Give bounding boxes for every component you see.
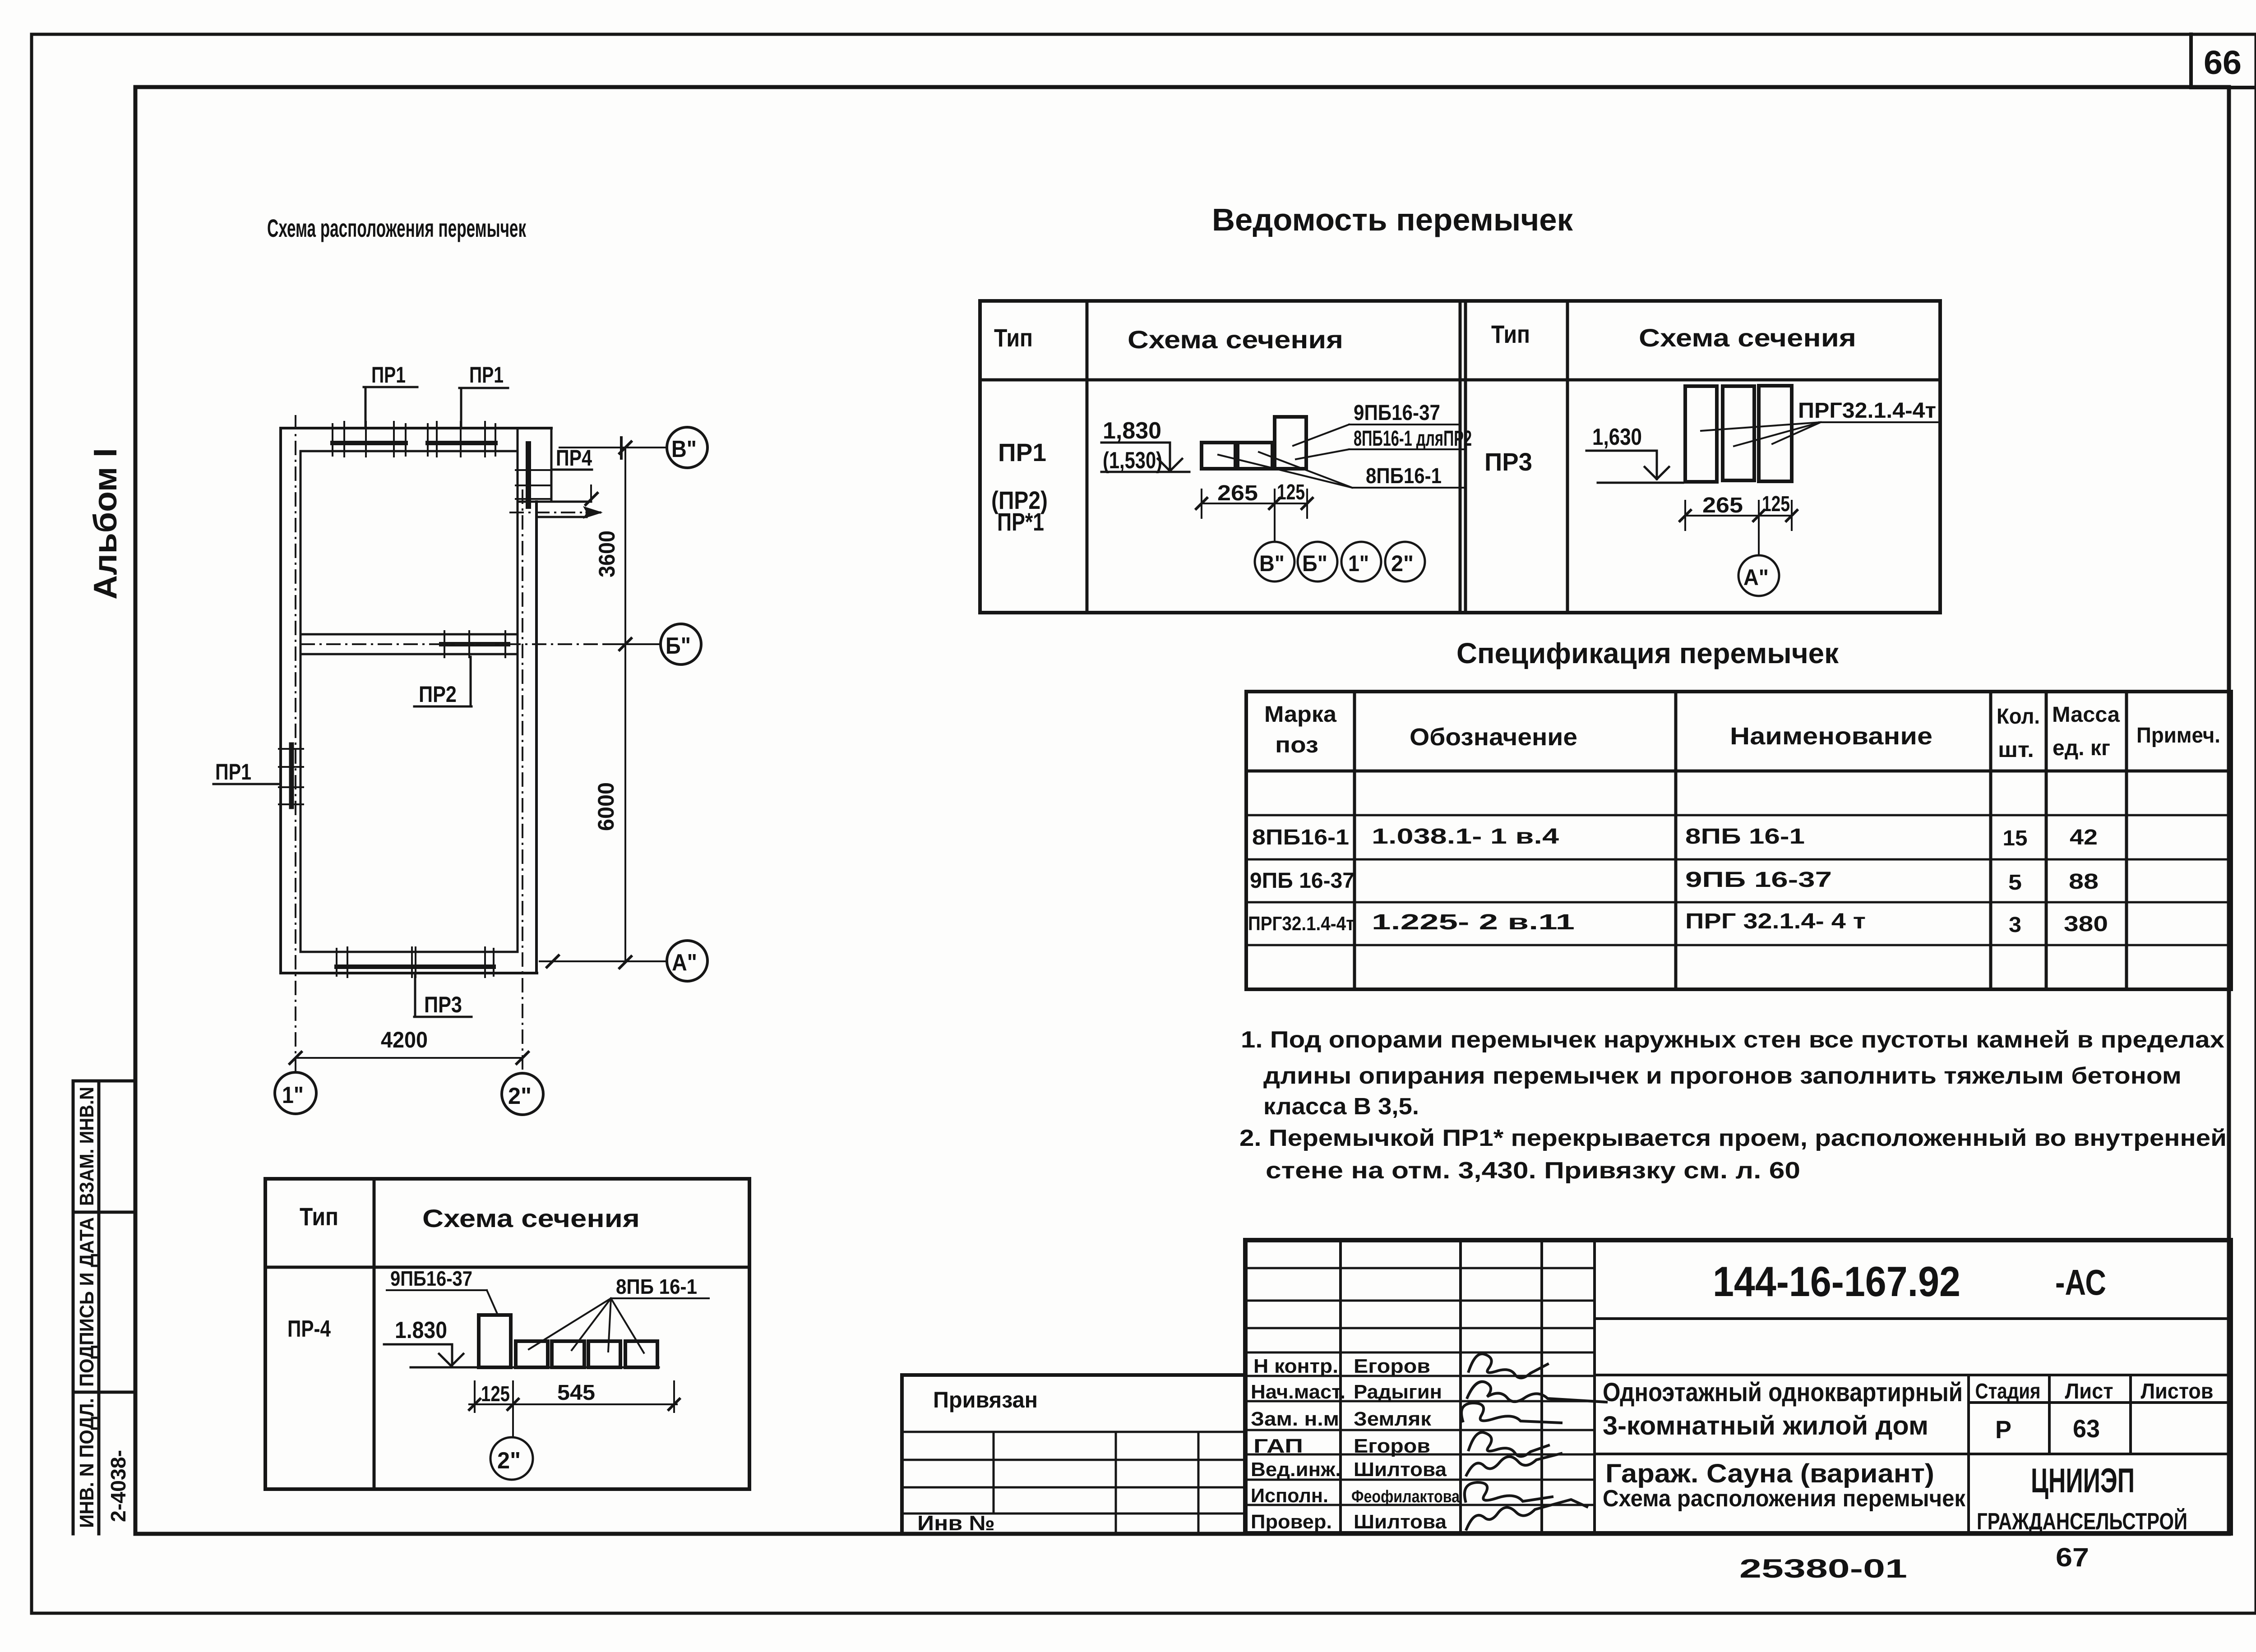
porch edge line [536, 516, 587, 518]
title block verticals [1341, 1240, 1595, 1533]
svg-text:ПР3: ПР3 [424, 992, 462, 1017]
signature squiggle ГАП [1469, 1432, 1549, 1456]
svg-text:ПРГ32.1.4-4т: ПРГ32.1.4-4т [1798, 399, 1936, 423]
svg-text:8ПБ 16-1: 8ПБ 16-1 [616, 1275, 697, 1298]
svg-text:ЦНИИЭП: ЦНИИЭП [2031, 1462, 2135, 1500]
svg-text:2. Перемычкой ПР1* перекрыва: 2. Перемычкой ПР1* перекрывается проем, … [1239, 1125, 2227, 1151]
svg-text:2": 2" [508, 1083, 532, 1109]
svg-text:1.225- 2 в.11: 1.225- 2 в.11 [1372, 910, 1575, 934]
svg-text:ПР4: ПР4 [556, 445, 592, 471]
svg-text:125: 125 [1277, 480, 1305, 504]
signature squiggle Провер. [1466, 1500, 1587, 1529]
svg-text:ГРАЖДАНСЕЛЬСТРОЙ: ГРАЖДАНСЕЛЬСТРОЙ [1977, 1508, 2187, 1535]
axis circle 2" [502, 1073, 543, 1115]
axis circle 1" [275, 1072, 316, 1114]
svg-text:Шилтова: Шилтова [1354, 1458, 1447, 1481]
svg-text:ПР1: ПР1 [998, 438, 1046, 466]
svg-text:(1,530): (1,530) [1103, 448, 1162, 474]
dimension 265 125 right [1685, 501, 1792, 530]
svg-text:ед. кг: ед. кг [2053, 736, 2110, 760]
svg-text:Схема расположения перемычек: Схема расположения перемычек [267, 214, 527, 242]
svg-text:5: 5 [2008, 871, 2022, 895]
svg-text:88: 88 [2069, 870, 2099, 894]
pr4 table frame [265, 1179, 749, 1489]
svg-text:Р: Р [1995, 1415, 2011, 1444]
axis circle А" [667, 941, 707, 981]
svg-text:Феофилактова: Феофилактова [1351, 1487, 1460, 1506]
section circle А" [1738, 555, 1779, 596]
svg-text:8ПБ 16-1: 8ПБ 16-1 [1685, 825, 1805, 849]
svg-text:Наименование: Наименование [1730, 723, 1932, 750]
signature squiggle Нач.маст. [1467, 1382, 1606, 1402]
svg-text:9ПБ 16-37: 9ПБ 16-37 [1250, 869, 1355, 893]
svg-text:ПР1: ПР1 [469, 362, 504, 388]
svg-text:1.038.1- 1 в.4: 1.038.1- 1 в.4 [1372, 825, 1559, 849]
title block left horizontals [1245, 1268, 1595, 1505]
svg-text:Схема сечения: Схема сечения [1128, 325, 1343, 354]
svg-text:Тип: Тип [300, 1202, 338, 1231]
svg-text:265: 265 [1702, 494, 1743, 517]
svg-text:Б": Б" [1302, 551, 1327, 576]
vedomost table frame [980, 301, 1940, 613]
pr4 base line [411, 1366, 659, 1369]
right wall inner line [517, 428, 519, 952]
lintel ПР1 group 1 ticks [333, 422, 406, 457]
vertical dimension line [624, 448, 626, 962]
svg-text:380: 380 [2064, 912, 2108, 936]
lintel ПР1 group 2 bar [428, 441, 495, 445]
pr4 section squares [516, 1341, 548, 1367]
svg-text:1,630: 1,630 [1592, 424, 1642, 450]
svg-text:15: 15 [2003, 826, 2028, 850]
lintel ПР4 bar [526, 444, 531, 506]
svg-text:3-комнатный жилой дом: 3-комнатный жилой дом [1603, 1411, 1928, 1440]
svg-text:поз: поз [1275, 732, 1318, 757]
lintel ПР2 ticks [444, 631, 505, 657]
entry axis dash-dot with arrow [590, 485, 592, 501]
svg-text:Спецификация перемычек: Спецификация перемычек [1456, 637, 1839, 669]
svg-text:42: 42 [2070, 826, 2098, 849]
svg-text:Схема сечения: Схема сечения [1639, 323, 1856, 352]
svg-text:Земляк: Земляк [1354, 1408, 1432, 1430]
svg-text:Гараж. Сауна (вариант): Гараж. Сауна (вариант) [1605, 1459, 1934, 1488]
axis Б" line [300, 643, 605, 645]
right wall notch outer [518, 428, 591, 502]
svg-text:Одноэтажный одноквартирный: Одноэтажный одноквартирный [1603, 1378, 1963, 1407]
svg-text:ПР2: ПР2 [419, 682, 457, 707]
svg-text:-АС: -АС [2055, 1262, 2106, 1302]
axis circle В" [667, 427, 707, 468]
svg-text:Шилтова: Шилтова [1354, 1511, 1447, 1533]
lintel section squares ПР1 [1202, 443, 1235, 469]
svg-text:125: 125 [481, 1382, 510, 1406]
svg-text:ПР1: ПР1 [215, 759, 251, 784]
svg-text:Ведомость перемычек: Ведомость перемычек [1212, 202, 1573, 237]
svg-text:Примеч.: Примеч. [2136, 724, 2220, 748]
leader to section circle А" [1758, 516, 1760, 555]
right wall outer lower line [535, 502, 538, 973]
lintel ПР2 bar [441, 642, 508, 646]
lintel ПР1 left bar [289, 745, 294, 807]
svg-text:545: 545 [557, 1381, 595, 1405]
svg-text:Зам. н.м: Зам. н.м [1251, 1408, 1339, 1430]
svg-text:2": 2" [497, 1448, 521, 1474]
svg-text:Масса: Масса [2052, 703, 2120, 727]
svg-text:стене на отм. 3,430. Привяз: стене на отм. 3,430. Привязку см. л. 60 [1266, 1158, 1800, 1184]
lintel ПР1 group 1 bar [333, 441, 406, 445]
left wall inner line [300, 451, 302, 952]
horizontal dimension 4200 [296, 1057, 522, 1059]
title block right horizontals [1595, 1319, 2231, 1454]
svg-text:ПРГ32.1.4-4т: ПРГ32.1.4-4т [1248, 913, 1355, 935]
axis circle Б" [661, 624, 701, 664]
svg-text:4200: 4200 [381, 1027, 428, 1052]
svg-text:1": 1" [282, 1082, 304, 1108]
svg-text:8ПБ16-1 дляПР2: 8ПБ16-1 дляПР2 [1354, 427, 1472, 451]
pr4 section circle 2" [490, 1437, 533, 1480]
top wall inner line [300, 450, 518, 452]
bottom wall inner line [300, 951, 516, 953]
svg-text:Схема расположения перемычек: Схема расположения перемычек [1603, 1486, 1966, 1512]
svg-text:9ПБ16-37: 9ПБ16-37 [1354, 401, 1440, 425]
svg-text:Нач.маст.: Нач.маст. [1251, 1381, 1345, 1403]
svg-text:9ПБ 16-37: 9ПБ 16-37 [1685, 868, 1832, 892]
svg-text:66: 66 [2204, 44, 2242, 81]
svg-text:9ПБ16-37: 9ПБ16-37 [390, 1267, 472, 1290]
svg-text:ПР1: ПР1 [371, 362, 406, 388]
axis А" line [540, 960, 667, 962]
svg-text:Привязан: Привязан [933, 1387, 1038, 1412]
svg-text:6000: 6000 [593, 782, 619, 831]
axis 2" dash-dot [522, 489, 523, 1073]
top wall outer line [281, 427, 551, 429]
svg-text:шт.: шт. [1998, 738, 2034, 762]
svg-text:265: 265 [1217, 481, 1258, 505]
dimension 265 125 left [1202, 489, 1307, 518]
elevation arrow [1158, 443, 1182, 471]
svg-text:В": В" [1259, 551, 1285, 576]
svg-text:Тип: Тип [1491, 320, 1530, 348]
lintel ПР1 group 2 ticks [428, 422, 495, 457]
section circles В" Б" 1" 2" [1255, 542, 1294, 581]
svg-text:Лист: Лист [2065, 1380, 2113, 1403]
privyazan frame [902, 1375, 1245, 1534]
svg-text:1.830: 1.830 [395, 1317, 447, 1343]
left margin stamp boxes [73, 1081, 135, 1534]
lintel ПР1 left ticks [279, 749, 303, 804]
spec table frame [1246, 692, 2231, 989]
svg-text:ПР-4: ПР-4 [287, 1316, 331, 1342]
svg-text:Н контр.: Н контр. [1253, 1355, 1338, 1377]
signature squiggle Вед.инж. [1466, 1454, 1561, 1475]
svg-text:Вед.инж.: Вед.инж. [1251, 1458, 1341, 1481]
svg-text:Схема сечения: Схема сечения [422, 1204, 640, 1232]
svg-text:Егоров: Егоров [1354, 1355, 1430, 1377]
svg-text:Обозначение: Обозначение [1410, 724, 1577, 751]
leader to section circles [1274, 503, 1276, 542]
signature squiggle Н контр. [1469, 1354, 1548, 1378]
lintel ПР3 ticks [337, 947, 494, 977]
svg-text:Тип: Тип [994, 323, 1033, 352]
svg-text:ПР3: ПР3 [1484, 448, 1532, 476]
svg-text:ПРГ 32.1.4- 4 т: ПРГ 32.1.4- 4 т [1685, 909, 1866, 933]
svg-text:3600: 3600 [594, 531, 619, 577]
svg-text:125: 125 [1762, 492, 1790, 516]
svg-text:В": В" [671, 436, 697, 462]
middle wall lines [300, 634, 518, 654]
svg-text:2-4038-: 2-4038- [106, 1450, 130, 1522]
axis В" line [559, 447, 667, 448]
svg-text:Провер.: Провер. [1251, 1511, 1332, 1533]
svg-text:2": 2" [1391, 551, 1414, 576]
svg-text:3: 3 [2009, 913, 2021, 937]
svg-text:ГАП: ГАП [1253, 1435, 1303, 1457]
svg-text:ИНВ. N ПОДЛ.: ИНВ. N ПОДЛ. [76, 1398, 98, 1528]
svg-text:Егоров: Егоров [1354, 1435, 1430, 1457]
svg-text:1": 1" [1348, 551, 1369, 576]
svg-text:Кол.: Кол. [1997, 705, 2040, 729]
lintel ПР4 ticks [516, 470, 551, 499]
svg-text:1,830: 1,830 [1103, 418, 1161, 444]
title block frame [1245, 1240, 2231, 1533]
left wall outer line [279, 428, 282, 973]
svg-text:ВЗАМ. ИНВ.N: ВЗАМ. ИНВ.N [76, 1087, 98, 1206]
svg-text:Б": Б" [666, 633, 691, 659]
dimension slashes [619, 438, 631, 968]
bottom wall outer line [281, 972, 537, 974]
svg-text:А": А" [1743, 565, 1769, 590]
svg-text:класса В 3,5.: класса В 3,5. [1263, 1094, 1419, 1120]
svg-text:Инв №: Инв № [917, 1511, 995, 1535]
svg-text:А": А" [672, 950, 697, 976]
lintel section bars ПР3 [1685, 386, 1717, 482]
svg-text:25380-01: 25380-01 [1739, 1554, 1907, 1583]
svg-text:Радыгин: Радыгин [1354, 1381, 1442, 1403]
svg-text:144-16-167.92: 144-16-167.92 [1713, 1258, 1960, 1305]
signature squiggle Исполн. [1465, 1482, 1552, 1501]
axis 1" dash-dot [295, 415, 296, 1072]
svg-text:Стадия: Стадия [1975, 1380, 2041, 1403]
svg-text:63: 63 [2073, 1414, 2100, 1443]
svg-text:ПОДПИСЬ И ДАТА: ПОДПИСЬ И ДАТА [76, 1217, 98, 1387]
svg-text:Исполн.: Исполн. [1251, 1485, 1328, 1507]
svg-text:Листов: Листов [2141, 1380, 2214, 1403]
pr4 dimension 125 545 [475, 1381, 674, 1412]
sheet number box 66 [2191, 34, 2256, 88]
svg-text:67: 67 [2056, 1543, 2089, 1572]
signature squiggle Зам. н.м [1461, 1403, 1561, 1423]
svg-text:Марка: Марка [1264, 701, 1337, 727]
pr4 tall section [479, 1315, 511, 1367]
svg-text:Альбом I: Альбом I [88, 448, 124, 600]
svg-text:8ПБ16-1: 8ПБ16-1 [1252, 826, 1349, 849]
lintel ПР3 bar [337, 964, 494, 969]
svg-text:1. Под опорами перемычек нару: 1. Под опорами перемычек наружных стен в… [1241, 1027, 2224, 1053]
svg-text:ПР*1: ПР*1 [997, 508, 1044, 536]
svg-text:длины опирания перемычек и: длины опирания перемычек и прогонов запо… [1263, 1063, 2182, 1089]
pr4 leader to circle 2" [512, 1404, 514, 1437]
svg-text:8ПБ16-1: 8ПБ16-1 [1366, 464, 1442, 488]
